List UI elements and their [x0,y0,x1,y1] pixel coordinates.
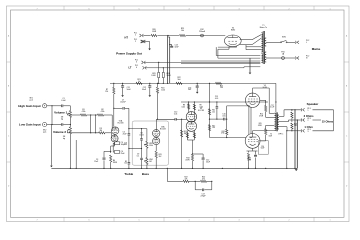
svg-text:Treble: Treble [124,172,133,176]
svg-text:10k: 10k [212,111,215,113]
svg-text:0.05: 0.05 [222,115,225,117]
svg-text:50uF: 50uF [206,162,210,164]
svg-text:0.05: 0.05 [174,113,177,115]
svg-text:High Gain Input: High Gain Input [18,104,40,108]
svg-text:0.02uF: 0.02uF [120,102,126,104]
svg-text:jack: jack [42,132,46,134]
svg-text:2: 2 [135,41,136,43]
svg-text:Speaker: Speaker [307,102,320,106]
svg-text:R12: R12 [212,125,215,127]
svg-text:5: 5 [138,8,139,10]
svg-text:470k: 470k [101,111,105,113]
svg-text:SW1: SW1 [282,36,286,38]
svg-text:10k: 10k [124,163,127,165]
svg-text:3: 3 [136,62,137,64]
svg-text:2: 2 [288,220,289,222]
svg-text:log: log [63,138,65,140]
svg-text:6: 6 [88,220,89,222]
svg-text:10k: 10k [181,30,184,32]
svg-text:Low Gain Input: Low Gain Input [19,123,41,127]
svg-text:150R: 150R [152,31,157,33]
svg-text:1: 1 [329,220,330,222]
svg-text:25uF: 25uF [94,161,98,163]
svg-text:1k: 1k [138,81,140,83]
svg-text:4: 4 [136,67,137,69]
svg-text:2: 2 [288,8,289,10]
svg-text:Power Supply Out: Power Supply Out [116,51,142,55]
svg-text:log: log [61,119,63,121]
svg-text:2k2: 2k2 [159,156,162,158]
svg-text:100k: 100k [182,106,186,108]
svg-text:100k: 100k [161,90,165,92]
svg-text:R8: R8 [183,105,185,107]
svg-text:ECC83: ECC83 [118,123,124,125]
svg-text:7: 7 [36,8,37,10]
svg-text:L: L [306,42,307,44]
svg-text:47k: 47k [185,179,188,181]
svg-text:22k: 22k [105,91,108,93]
svg-text:R14: R14 [260,114,263,116]
svg-text:470k: 470k [221,133,225,135]
svg-text:Mains: Mains [312,47,321,51]
svg-text:1R5: 1R5 [294,125,297,127]
svg-text:15W: 15W [268,135,272,137]
svg-text:5k6: 5k6 [178,79,181,81]
svg-text:Volume 1: Volume 1 [54,111,67,115]
svg-text:0.1: 0.1 [137,156,139,158]
svg-text:15 Ohms: 15 Ohms [322,120,334,124]
svg-text:470k: 470k [82,111,86,113]
svg-text:25uF: 25uF [121,153,125,155]
svg-text:R5: R5 [125,161,127,163]
svg-text:ECC83: ECC83 [198,110,204,112]
svg-text:50uF: 50uF [261,148,265,150]
svg-text:EZ80: EZ80 [231,30,235,32]
svg-text:1: 1 [135,35,136,37]
svg-text:C19: C19 [124,142,127,144]
svg-text:LT: LT [129,66,132,70]
svg-text:.05: .05 [125,144,127,146]
svg-text:0.022: 0.022 [139,134,143,136]
svg-text:R15: R15 [259,123,262,125]
svg-text:Mains Tx: Mains Tx [260,27,267,29]
svg-text:jack: jack [29,99,33,101]
svg-text:2: 2 [308,120,309,122]
svg-text:3: 3 [238,8,239,10]
svg-text:4: 4 [188,8,189,10]
svg-text:5: 5 [138,220,139,222]
svg-text:100k: 100k [200,106,204,108]
svg-text:250mA: 250mA [199,30,205,33]
svg-text:Bass: Bass [142,172,150,176]
svg-text:4: 4 [188,220,189,222]
svg-text:R16: R16 [248,158,251,160]
svg-text:1: 1 [329,8,330,10]
svg-text:25uF: 25uF [123,134,127,136]
svg-text:R19: R19 [294,123,297,125]
svg-text:10k: 10k [220,87,223,89]
svg-text:8uF: 8uF [188,89,191,91]
svg-text:HT: HT [125,35,129,39]
svg-text:O/P Tx: O/P Tx [278,133,283,135]
svg-text:6: 6 [88,8,89,10]
svg-text:10k: 10k [212,127,215,129]
svg-text:R9: R9 [200,105,202,107]
svg-text:0.05: 0.05 [215,98,218,100]
svg-text:R18: R18 [222,131,225,133]
svg-text:ECC83: ECC83 [160,129,166,131]
svg-text:7: 7 [36,220,37,222]
svg-text:C17: C17 [271,105,274,107]
svg-text:0.1uF: 0.1uF [270,107,274,109]
svg-text:3: 3 [238,220,239,222]
svg-text:1: 1 [308,110,309,112]
svg-text:47k: 47k [202,179,205,181]
svg-text:C14: C14 [261,146,264,148]
svg-text:270pF: 270pF [201,195,207,197]
svg-text:250k: 250k [149,145,153,147]
svg-text:Volume 2: Volume 2 [53,130,66,134]
svg-text:3: 3 [308,131,309,133]
svg-text:R11: R11 [212,110,215,112]
